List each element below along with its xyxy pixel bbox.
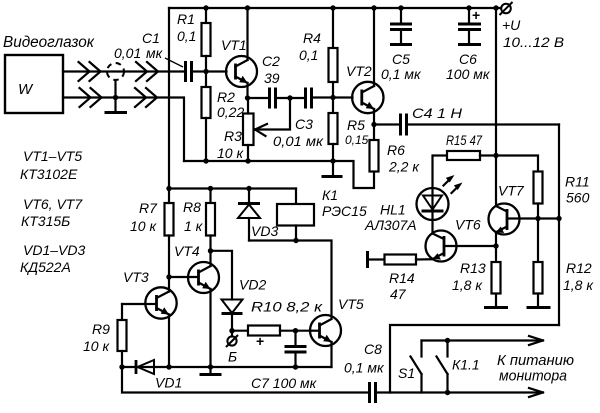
resistor R15 47 xyxy=(433,132,497,188)
svg-text:C1: C1 xyxy=(142,30,160,46)
resistor R9 10 к xyxy=(83,304,146,367)
wire C1 to VT1 base xyxy=(192,70,227,72)
svg-text:R5: R5 xyxy=(347,117,365,133)
wire bottom rail xyxy=(122,367,369,393)
capacitor C4 1 Н xyxy=(374,105,559,136)
svg-text:мк: мк xyxy=(146,45,164,61)
svg-text:10...12 В: 10...12 В xyxy=(503,34,564,50)
node C5 top on rail xyxy=(398,5,403,10)
node VD3 top on bus xyxy=(246,186,251,191)
wire bottom output line with arrow xyxy=(448,388,544,397)
ground under R12 xyxy=(527,306,551,309)
svg-text:R3: R3 xyxy=(224,128,242,144)
capacitor C8 0,1 мк xyxy=(344,341,385,403)
svg-text:0,1: 0,1 xyxy=(299,47,318,63)
resistor R6 2,2 к xyxy=(370,125,421,175)
node base line / output drop xyxy=(556,216,561,221)
svg-text:VD3: VD3 xyxy=(251,223,278,239)
node R2 bottom on bus xyxy=(203,158,208,163)
svg-text:R9: R9 xyxy=(92,321,110,337)
node R3 bottom on bus xyxy=(245,158,250,163)
svg-text:0,1: 0,1 xyxy=(177,28,196,44)
svg-text:VD1–VD3: VD1–VD3 xyxy=(23,242,85,258)
node shield-ground junction xyxy=(113,95,118,100)
transistor VT7 xyxy=(489,183,560,247)
capacitor C7 100 мк (electrolytic) xyxy=(251,331,318,391)
svg-text:К1.1: К1.1 xyxy=(452,357,480,373)
node VT1 emitter / R3 xyxy=(245,95,250,100)
node bus end / R5 / ground xyxy=(330,158,335,163)
svg-text:VT3: VT3 xyxy=(123,269,149,285)
resistor R14 47 with terminal bar xyxy=(368,251,433,302)
node C2 / C3 / wiper junction xyxy=(287,95,292,100)
svg-text:R10 8,2 к: R10 8,2 к xyxy=(251,299,324,315)
wire signal input line xyxy=(63,70,185,72)
svg-text:РЭС15: РЭС15 xyxy=(322,203,367,219)
node R11 bottom / R12 top / VT7 base xyxy=(535,216,540,221)
svg-text:0,01 мк: 0,01 мк xyxy=(273,133,324,149)
ground under R13 xyxy=(484,306,508,309)
capacitor C6 100 мк (electrolytic) xyxy=(446,7,491,82)
svg-text:C2: C2 xyxy=(262,53,280,69)
svg-text:R13: R13 xyxy=(460,260,486,276)
wire C3 to VT2 base xyxy=(312,96,353,98)
svg-text:К1: К1 xyxy=(322,187,338,203)
svg-text:VT7: VT7 xyxy=(498,183,525,199)
diode VD2 xyxy=(222,277,267,331)
svg-text:C4 1 Н: C4 1 Н xyxy=(412,105,463,121)
node VT3 emitter on bus xyxy=(166,364,171,369)
resistor R8 1 к xyxy=(183,189,215,251)
wire top output line with arrow xyxy=(422,336,544,345)
capacitor C3 0,01 мк xyxy=(273,88,324,150)
node K1.1 top xyxy=(445,338,450,343)
svg-text:0,1 мк: 0,1 мк xyxy=(344,360,385,376)
node K1.1 bottom xyxy=(445,390,450,395)
svg-text:S1: S1 xyxy=(398,365,415,381)
svg-text:C7 100 мк: C7 100 мк xyxy=(251,375,318,391)
svg-text:+: + xyxy=(256,333,264,349)
node Б junction xyxy=(229,328,234,333)
node rail corner xyxy=(493,5,498,10)
resistor R2 0,22 xyxy=(202,72,245,162)
svg-text:К питанию: К питанию xyxy=(497,352,574,369)
capacitor C1 0,01 мк xyxy=(114,30,192,82)
svg-text:КТ3102Е: КТ3102Е xyxy=(20,166,78,182)
node R8 top on bus xyxy=(208,186,213,191)
svg-text:VT6, VT7: VT6, VT7 xyxy=(23,196,83,212)
transistor VT1 xyxy=(221,8,257,98)
svg-text:КД522А: КД522А xyxy=(20,259,71,275)
resistor R12 1,8 к xyxy=(534,219,595,308)
relay K1 РЭС15 coil xyxy=(277,187,367,241)
svg-text:VD2: VD2 xyxy=(239,277,266,293)
wire to VD2 xyxy=(211,251,233,300)
transistor VT6 xyxy=(426,217,497,262)
wire +U to R11 top xyxy=(496,156,538,172)
label block VT1-VT5 КТ3102Е xyxy=(20,148,82,182)
node VT2 base / R4 / R5 xyxy=(330,95,335,100)
camera box W (Видеоглазок) xyxy=(3,34,95,113)
svg-text:2,2 к: 2,2 к xyxy=(388,159,420,175)
wire VD3 anode to VT5 collector xyxy=(249,241,332,319)
svg-text:VT2: VT2 xyxy=(346,63,372,79)
svg-text:VT1–VT5: VT1–VT5 xyxy=(23,148,82,164)
node VT4 collector / R8 / VD2 wire xyxy=(208,248,213,253)
svg-text:C5: C5 xyxy=(392,51,410,67)
wire bottom rail to switches xyxy=(390,391,448,393)
svg-text:VT4: VT4 xyxy=(174,243,200,259)
svg-text:R12: R12 xyxy=(566,260,592,276)
node R4 top on rail xyxy=(330,5,335,10)
wire +U drop to lower bus xyxy=(168,8,170,189)
switch S1 xyxy=(398,341,422,393)
svg-text:Видеоглазок: Видеоглазок xyxy=(3,34,95,51)
svg-text:АЛ307А: АЛ307А xyxy=(364,217,417,233)
resistor R1 0,1 xyxy=(177,8,211,72)
svg-text:R11: R11 xyxy=(565,174,590,190)
transistor VT2 xyxy=(346,8,383,125)
svg-text:47: 47 xyxy=(390,286,407,302)
wire C8 to output drop xyxy=(376,325,560,393)
svg-text:VT6: VT6 xyxy=(455,217,481,233)
svg-text:R8: R8 xyxy=(183,199,201,215)
svg-text:HL1: HL1 xyxy=(380,202,406,218)
node R1 bottom / C1 / base xyxy=(203,69,208,74)
transistor VT4 xyxy=(169,243,219,367)
svg-text:+: + xyxy=(472,7,480,23)
resistor R7 10 к xyxy=(130,200,174,277)
node R15 / +U drop xyxy=(493,153,498,158)
node VT1 collector on rail xyxy=(245,5,250,10)
svg-text:C6: C6 xyxy=(459,51,477,67)
common bus (emitter bus) xyxy=(184,160,333,162)
+U lower bus xyxy=(169,187,296,189)
svg-text:0,1 мк: 0,1 мк xyxy=(381,66,422,82)
node R1 top on rail xyxy=(203,5,208,10)
node relay bottom junction xyxy=(293,238,298,243)
node VT4 emitter on bus xyxy=(208,364,213,369)
coax shield dashed circle xyxy=(107,63,124,80)
svg-text:R15 47: R15 47 xyxy=(446,132,483,148)
svg-text:1,8 к: 1,8 к xyxy=(452,277,483,293)
svg-text:R2: R2 xyxy=(217,89,235,105)
wire emitter node to C2 xyxy=(248,97,270,99)
svg-text:10 к: 10 к xyxy=(130,218,157,234)
wire C2 to C3 xyxy=(276,97,306,99)
svg-text:C3: C3 xyxy=(295,116,313,132)
resistor R5 0,15 xyxy=(329,98,369,162)
top +U rail xyxy=(169,7,500,9)
potentiometer R3 10 к xyxy=(217,98,290,161)
label block VT6, VT7 КТ315Б xyxy=(21,196,83,229)
wire +U right drop xyxy=(495,8,497,206)
switch contact K1.1 xyxy=(437,341,480,393)
svg-text:R6: R6 xyxy=(387,142,405,158)
node bus / R7 top xyxy=(166,186,171,191)
LED HL1 АЛ307А xyxy=(364,172,464,233)
diode VD1 xyxy=(136,360,182,391)
+U supply terminal xyxy=(500,2,565,50)
node C7 bottom on bus xyxy=(293,364,298,369)
svg-text:R4: R4 xyxy=(303,30,321,46)
svg-text:0,15: 0,15 xyxy=(345,133,369,147)
node VT3 collector / R7 / VT4 base xyxy=(166,274,171,279)
transistor VT5 xyxy=(310,296,364,367)
wire shield input line xyxy=(63,98,184,162)
svg-text:100 мк: 100 мк xyxy=(446,66,491,82)
diode VD3 xyxy=(238,189,278,241)
svg-text:VD1: VD1 xyxy=(155,375,182,391)
svg-text:560: 560 xyxy=(566,190,590,206)
svg-text:+U: +U xyxy=(502,17,521,33)
ground bus lower xyxy=(122,366,332,368)
node R9 / VD1 corner xyxy=(119,364,124,369)
svg-text:C8: C8 xyxy=(364,341,382,357)
node R10 / C7 / VT5 base xyxy=(293,328,298,333)
svg-text:КТ315Б: КТ315Б xyxy=(21,213,70,229)
svg-text:R1: R1 xyxy=(177,11,195,27)
resistor R4 0,1 xyxy=(299,8,338,98)
svg-text:монитора: монитора xyxy=(499,368,567,385)
resistor R10 8,2 к xyxy=(232,299,324,336)
resistor R11 560 xyxy=(534,172,590,219)
ground under VT4 emitter xyxy=(200,367,222,375)
node VT2 emitter / R6 / C4 xyxy=(371,122,376,127)
terminal Б xyxy=(226,331,238,365)
svg-text:R14: R14 xyxy=(389,270,415,286)
capacitor C5 0,1 мк xyxy=(381,8,422,82)
svg-text:0,01: 0,01 xyxy=(114,45,141,61)
svg-text:39: 39 xyxy=(264,70,280,86)
svg-text:1 к: 1 к xyxy=(184,218,204,234)
node C6 top on rail xyxy=(466,5,471,10)
svg-text:VT1: VT1 xyxy=(221,37,247,53)
wire bus to R6 bottom xyxy=(333,161,374,188)
cable chevrons on signal line xyxy=(79,62,159,81)
node VT2 collector on rail xyxy=(371,5,376,10)
svg-text:W: W xyxy=(18,81,34,98)
ground at input xyxy=(105,80,128,113)
label К питанию монитора xyxy=(497,352,574,385)
cable chevrons on shield line xyxy=(80,88,158,107)
ground at common bus xyxy=(322,161,343,177)
label block VD1-VD3 КД522А xyxy=(20,242,85,275)
resistor R13 1,8 к xyxy=(452,246,501,307)
svg-text:0,22: 0,22 xyxy=(217,104,244,120)
svg-text:10 к: 10 к xyxy=(217,145,244,161)
svg-text:Б: Б xyxy=(228,349,237,365)
svg-text:VT5: VT5 xyxy=(338,296,364,312)
wire C4 line to VT7 base node xyxy=(558,125,560,326)
svg-text:1,8 к: 1,8 к xyxy=(563,277,594,293)
svg-text:R7: R7 xyxy=(139,200,158,216)
svg-text:10 к: 10 к xyxy=(83,338,110,354)
capacitor C2 39 xyxy=(262,53,280,109)
transistor VT3 xyxy=(123,269,177,367)
wire R7 top lead xyxy=(168,189,170,204)
node VT7 emitter / VT6 base / R13 xyxy=(493,243,498,248)
